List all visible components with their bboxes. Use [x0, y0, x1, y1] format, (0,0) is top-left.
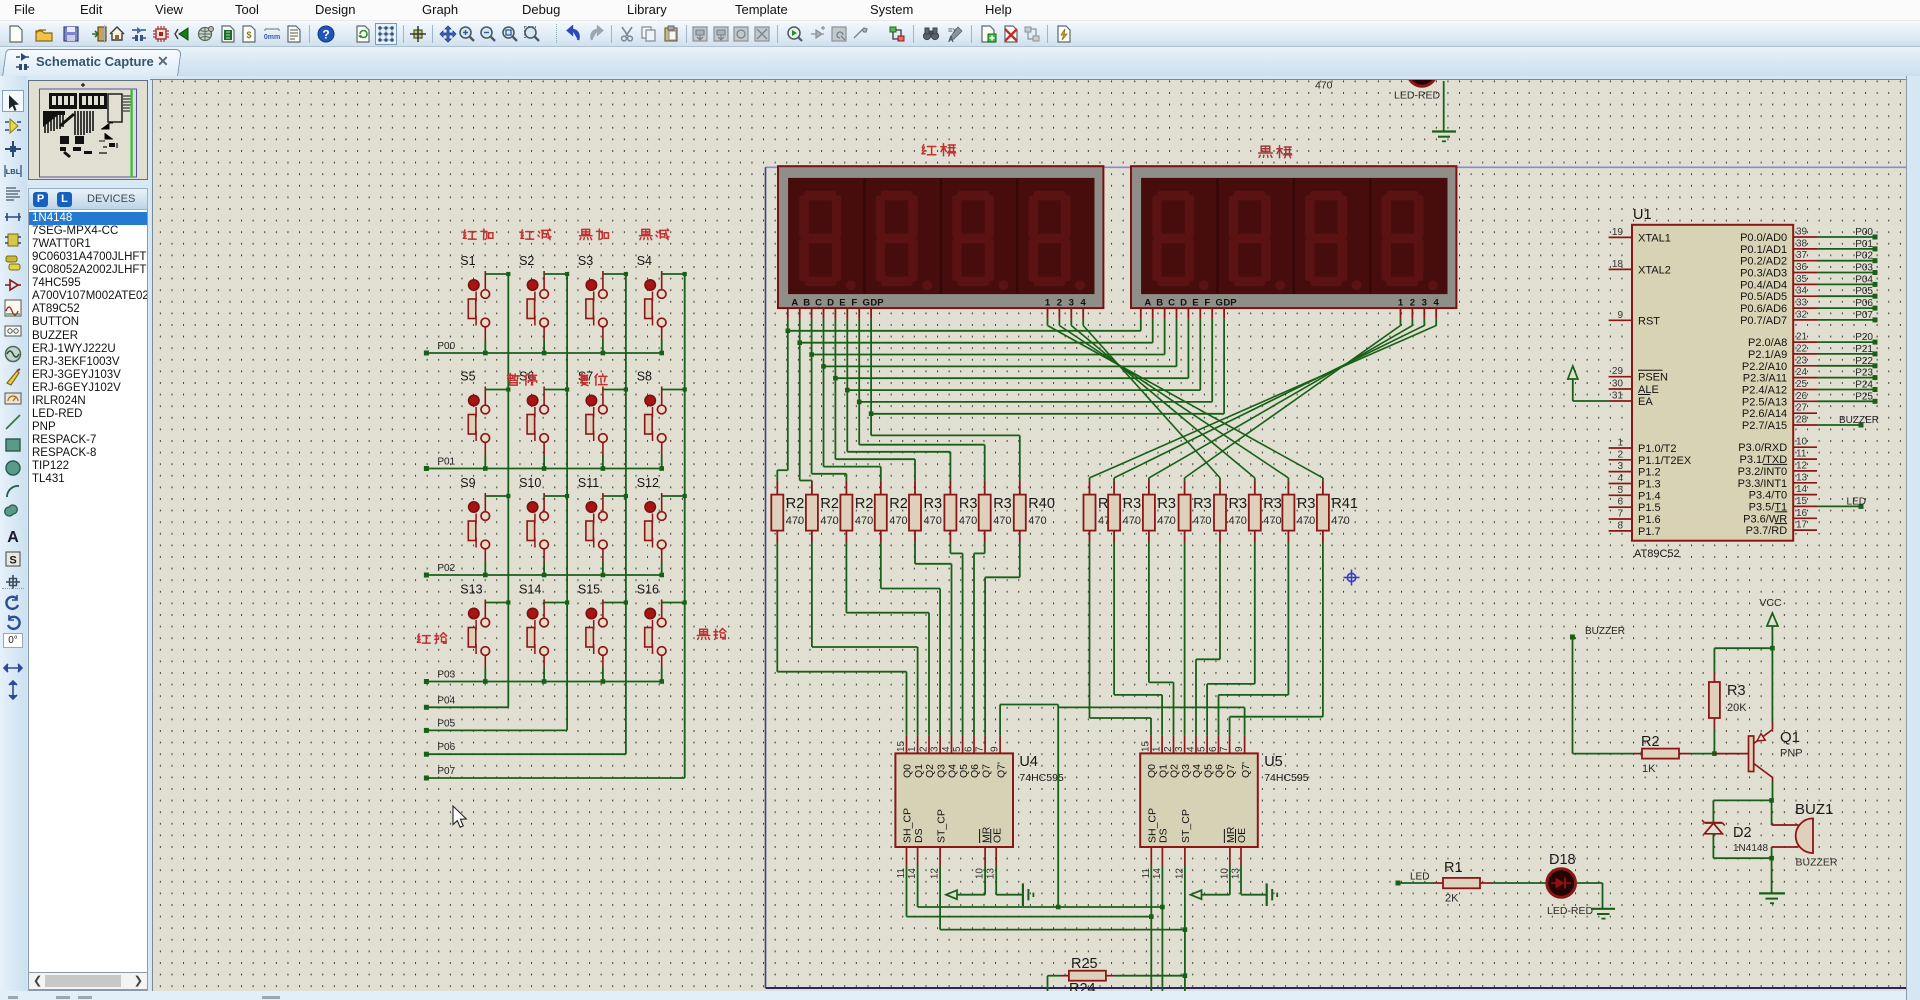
svg-text:DP: DP [870, 297, 884, 308]
wire net P20 [1817, 341, 1875, 343]
wire net LED [1817, 505, 1861, 507]
svg-text:0mm: 0mm [264, 34, 280, 41]
svg-text:1: 1 [1617, 438, 1623, 449]
junction buzzer bottom [1769, 856, 1774, 861]
LED D18 LED-RED [1547, 869, 1576, 898]
svg-text:38: 38 [1796, 238, 1808, 249]
svg-text:11: 11 [1141, 868, 1152, 879]
svg-text:4: 4 [1186, 746, 1197, 752]
resistor R32 (left bank 6) [984, 481, 986, 495]
svg-text:R2: R2 [1641, 734, 1660, 750]
junction S7 to row [601, 466, 606, 471]
svg-text:4: 4 [941, 746, 952, 752]
junction S2 to row [542, 351, 547, 356]
wire red-display segment 4 to resistor [834, 378, 836, 459]
wire net P23 [1817, 377, 1875, 379]
wire loop S1 to column [485, 273, 508, 275]
svg-text:P2.4/A12: P2.4/A12 [1742, 385, 1787, 397]
wire loop S15 to column [603, 602, 626, 604]
svg-text:13: 13 [986, 868, 997, 880]
svg-text:26: 26 [1796, 391, 1808, 402]
svg-text:D: D [827, 297, 834, 308]
wire loop S12 to column [662, 495, 685, 497]
digit separator [863, 178, 865, 294]
svg-text:AT89C52: AT89C52 [1634, 548, 1680, 560]
svg-text:D2: D2 [1733, 825, 1752, 841]
wire R25 left [1047, 976, 1049, 1000]
label 黑棋 (black chess) [1259, 146, 1273, 157]
svg-text:33: 33 [1796, 298, 1808, 309]
digit separator [1216, 178, 1218, 294]
junction chain-DS [1056, 905, 1061, 910]
menu bar [0, 0, 1920, 20]
U4 pin 15 Q0 [906, 735, 908, 753]
U1 pin 9 RST [1609, 319, 1632, 321]
svg-text:S8: S8 [637, 370, 652, 384]
active tab [2, 49, 182, 76]
svg-text:R3: R3 [1229, 496, 1248, 512]
wire row P03 [426, 681, 661, 683]
resistor R33 (right bank 1) [1113, 481, 1115, 495]
svg-text:1: 1 [907, 746, 918, 752]
7seg display 黑棋 (black) inner [1141, 178, 1447, 294]
resistor R31 (left bank 5) [949, 481, 951, 495]
svg-text:P04: P04 [1855, 274, 1873, 285]
svg-text:1K: 1K [1642, 763, 1656, 775]
U5 pin 7 Q7 [1229, 735, 1231, 753]
svg-text:470: 470 [1028, 515, 1046, 527]
resistor R33 (left bank 7) [1019, 481, 1021, 495]
junction S11 to row [601, 573, 606, 578]
U1 pin 2 P1.1/T2EX [1609, 459, 1632, 461]
svg-text:PNP: PNP [1780, 748, 1803, 760]
resistor R38 (right bank 6) [1287, 481, 1289, 495]
svg-text:24: 24 [1796, 367, 1808, 378]
U1 pin 33 P0.6/AD6 [1793, 307, 1817, 309]
svg-text:4: 4 [1617, 473, 1623, 484]
junction S10 to row [542, 573, 547, 578]
U5 pin 15 Q0 [1150, 735, 1152, 753]
svg-text:S2: S2 [519, 254, 534, 268]
resistor R3 20K [1713, 648, 1715, 672]
resistor R2 body [1642, 749, 1679, 759]
U1 pin 18 XTAL2 [1609, 268, 1632, 270]
svg-text:5: 5 [1197, 746, 1208, 752]
node BUZZER terminal [1570, 635, 1575, 640]
svg-text:P3.3/INT1: P3.3/INT1 [1738, 478, 1788, 490]
svg-text:1: 1 [1045, 297, 1051, 308]
U5 pin 1 Q1 [1161, 735, 1163, 753]
wire black display digit 2 diagonal [1411, 319, 1413, 326]
U4 pin 9 Q7' [999, 735, 1001, 753]
junction S13 to row [483, 679, 488, 684]
svg-text:DS: DS [1158, 828, 1170, 843]
wire segment bus 6 (red display pin to black display pin) [858, 319, 860, 402]
digit 1 segments [799, 191, 856, 291]
svg-text:3: 3 [1617, 461, 1623, 472]
wire net P03 [1817, 272, 1875, 274]
sheet border bottom [766, 987, 1908, 989]
svg-text:B: B [803, 297, 810, 308]
resistor R29 (left bank 3) [880, 481, 882, 495]
svg-text:470: 470 [993, 515, 1011, 527]
svg-text:2: 2 [1617, 449, 1623, 460]
svg-text:Q1: Q1 [1780, 729, 1800, 746]
resistor R32 (right bank 0) [1089, 481, 1091, 495]
U1 pin 31 EA [1609, 400, 1632, 402]
junction S14 to row [542, 679, 547, 684]
wire right bank resistor 5 to U5 Q5 [1254, 543, 1256, 684]
U1 pin 32 P0.7/AD7 [1793, 319, 1817, 321]
wire U5 SH_CP down [1150, 865, 1152, 1000]
U5 pin 11 SH_CP [1150, 847, 1152, 865]
ground U4 OE [995, 865, 997, 895]
svg-text:3: 3 [1422, 297, 1427, 308]
wire net BUZZER [1817, 424, 1861, 426]
junction S4 to row [659, 351, 664, 356]
svg-text:P1.1/T2EX: P1.1/T2EX [1638, 455, 1692, 467]
wire left bank resistor 0 to U4 Q0 [776, 543, 778, 672]
svg-text:A: A [1144, 297, 1151, 308]
svg-text:12: 12 [1796, 460, 1808, 471]
wire segment bus 4 (red display pin to black display pin) [834, 319, 836, 378]
node P03 [424, 679, 429, 684]
svg-text:10: 10 [1219, 868, 1230, 880]
U5 pin 2 Q2 [1173, 735, 1175, 753]
U5 pin 9 Q7' [1244, 735, 1246, 753]
wire loop S5 to column [485, 389, 508, 391]
7seg display 红棋 (red) inner [788, 178, 1094, 294]
svg-text:S5: S5 [460, 370, 475, 384]
U5 pin 14 DS [1161, 847, 1163, 865]
wire red-display segment 1 to resistor [799, 343, 801, 481]
svg-text:P23: P23 [1855, 368, 1873, 379]
svg-text:9: 9 [990, 746, 1001, 752]
svg-text:P3.4/T0: P3.4/T0 [1749, 490, 1788, 502]
buzzer BUZ1 [1771, 800, 1773, 825]
overview window [28, 80, 148, 180]
digit 3 segments [952, 191, 1009, 291]
svg-text:2: 2 [1163, 746, 1174, 752]
svg-text:11: 11 [896, 868, 907, 879]
digit 4 segments [1382, 191, 1439, 291]
svg-text:P2.7/A15: P2.7/A15 [1742, 420, 1787, 432]
svg-text:R2: R2 [820, 496, 839, 512]
svg-text:P1.0/T2: P1.0/T2 [1638, 443, 1677, 455]
U5 pin 3 Q3 [1184, 735, 1186, 753]
junction S16 to row [659, 679, 664, 684]
U1 pin 24 P2.3/A11 [1793, 377, 1817, 379]
wire right bank resistor 3 to U5 Q3 [1184, 543, 1186, 736]
svg-text:Q7': Q7' [1240, 762, 1252, 778]
wire left bank resistor 4 to U4 Q4 [914, 543, 916, 564]
horizontal scrollbar [28, 972, 148, 990]
svg-text:P22: P22 [1855, 356, 1873, 367]
svg-text:18: 18 [1612, 259, 1624, 270]
junction bus 6 [857, 400, 862, 405]
svg-text:Q3: Q3 [1180, 764, 1192, 778]
resistor R1 2K [1398, 882, 1433, 884]
junction R25 [1183, 973, 1188, 978]
svg-text:R3: R3 [1193, 496, 1212, 512]
svg-text:ST_CP: ST_CP [935, 809, 947, 843]
svg-text:2K: 2K [1445, 893, 1459, 905]
U1 pin 26 P2.5/A13 [1793, 400, 1817, 402]
junction base node [1712, 751, 1717, 756]
svg-text:S4: S4 [637, 254, 652, 268]
svg-text:LED: LED [1847, 496, 1866, 507]
resistor R34 (right bank 2) [1148, 481, 1150, 495]
svg-text:15: 15 [1141, 740, 1152, 752]
resistor R30 (left bank 4) [914, 481, 916, 495]
svg-text:P20: P20 [1855, 332, 1873, 343]
wire red display digit 4 diagonal [1082, 319, 1084, 326]
junction S8 to row [659, 466, 664, 471]
svg-text:BUZZER: BUZZER [1585, 626, 1625, 637]
U1 pin 19 XTAL1 [1609, 236, 1632, 238]
wire keypad column 2 [566, 274, 568, 730]
op-amp U1 AT89C52 microcontroller body [1632, 225, 1793, 541]
svg-text:S11: S11 [578, 476, 599, 490]
toolbar [0, 20, 1920, 47]
U1 pin 10 P3.0/RXD [1793, 446, 1817, 448]
svg-text:RST: RST [1638, 315, 1660, 327]
wire collector down [1772, 782, 1774, 800]
U1 pin 23 P2.2/A10 [1793, 365, 1817, 367]
svg-text:470: 470 [1263, 515, 1281, 527]
svg-text:ST_CP: ST_CP [1180, 809, 1192, 843]
svg-text:470: 470 [924, 515, 942, 527]
U1 pin 11 P3.1/TXD [1793, 458, 1817, 460]
svg-text:36: 36 [1796, 262, 1808, 273]
wire right bank resistor 1 to U5 Q1 [1113, 543, 1115, 695]
wire red-display segment 3 to resistor [823, 366, 825, 466]
resistor R37 (right bank 5) [1254, 481, 1256, 495]
wire net P07 [1817, 319, 1875, 321]
svg-text:LED-RED: LED-RED [1394, 90, 1441, 102]
svg-text:BUZ1: BUZ1 [1795, 801, 1833, 818]
svg-text:P2.2/A10: P2.2/A10 [1742, 361, 1787, 373]
wire segment bus 1 (red display pin to black display pin) [799, 319, 801, 343]
wire black display digit 3 diagonal [1423, 319, 1425, 326]
wire U4 SH_CP to U5 SH_CP [906, 865, 908, 917]
wire red-display segment 2 to resistor [811, 355, 813, 474]
svg-text:S10: S10 [519, 476, 541, 490]
svg-text:15: 15 [896, 740, 907, 752]
resistor R26 (left bank 0) [776, 481, 778, 495]
junction bus 4 [833, 376, 838, 381]
svg-text:74HC595: 74HC595 [1019, 772, 1064, 784]
node P07 [424, 776, 429, 781]
wire red-display segment 5 to resistor [846, 390, 848, 452]
digit 4 segments [1029, 191, 1086, 291]
resistor R28 (left bank 2) [845, 481, 847, 495]
svg-text:470: 470 [820, 515, 838, 527]
svg-text:R40: R40 [1028, 496, 1055, 512]
junction bus 5 [845, 388, 850, 393]
svg-text:21: 21 [1796, 332, 1808, 343]
svg-text:P1.3: P1.3 [1638, 479, 1661, 491]
svg-text:23: 23 [1796, 355, 1808, 366]
svg-text:12: 12 [930, 868, 941, 880]
digit separator [1016, 178, 1018, 294]
digit separator [1293, 178, 1295, 294]
U1 pin 36 P0.3/AD3 [1793, 272, 1817, 274]
wire row P00 [426, 352, 661, 354]
LED (cut off at top) [1408, 58, 1437, 87]
svg-text:470: 470 [1193, 515, 1211, 527]
U1 pin 12 P3.2/INT0 [1793, 470, 1817, 472]
wire loop S6 to column [544, 389, 567, 391]
node P02 [424, 573, 429, 578]
left panel [0, 76, 150, 1000]
U1 pin 3 P1.2 [1609, 471, 1632, 473]
wire net P22 [1817, 365, 1875, 367]
wire net P05 [1817, 295, 1875, 297]
U4 pin 10 MR [984, 847, 986, 865]
svg-text:4: 4 [1434, 297, 1440, 308]
node P06 [424, 752, 429, 757]
svg-text:D: D [1180, 297, 1187, 308]
svg-text:Q7': Q7' [995, 762, 1007, 778]
svg-text:6: 6 [1208, 746, 1219, 752]
svg-text:P06: P06 [1855, 298, 1873, 309]
junction S15 to row [601, 679, 606, 684]
U1 pin 8 P1.7 [1609, 530, 1632, 532]
svg-text:VCC: VCC [1759, 597, 1782, 609]
display 黑棋 (black) pins [1140, 308, 1142, 319]
resistor R39 (right bank 7) [1322, 481, 1324, 495]
svg-text:S1: S1 [460, 254, 475, 268]
tab bar [0, 47, 1920, 76]
svg-text:P1.6: P1.6 [1638, 514, 1661, 526]
svg-text:9: 9 [1234, 746, 1245, 752]
svg-text:P2.1/A9: P2.1/A9 [1748, 349, 1787, 361]
svg-text:R3: R3 [1263, 496, 1282, 512]
svg-text:P00: P00 [437, 341, 455, 352]
wire to LED [1492, 882, 1547, 884]
node P05 [424, 728, 429, 733]
svg-text:S13: S13 [460, 583, 482, 597]
resistor R35 (right bank 3) [1184, 481, 1186, 495]
wire loop S14 to column [544, 602, 567, 604]
right window edge strip [1906, 76, 1920, 1000]
U1 pin 6 P1.5 [1609, 506, 1632, 508]
svg-text:470: 470 [1229, 515, 1247, 527]
svg-text:E: E [839, 297, 845, 308]
svg-text:2: 2 [1410, 297, 1415, 308]
U4 pin 3 Q3 [939, 735, 941, 753]
wire row P06 [426, 753, 626, 755]
svg-text:15: 15 [1796, 496, 1808, 507]
svg-text:5: 5 [952, 746, 963, 752]
svg-text:S16: S16 [637, 583, 659, 597]
svg-text:P1.4: P1.4 [1638, 490, 1661, 502]
wire U5 DS down [1161, 865, 1163, 1000]
svg-text:10: 10 [975, 868, 986, 880]
svg-text:P02: P02 [1855, 251, 1873, 262]
resistor R27 (left bank 1) [811, 481, 813, 495]
wire net P06 [1817, 307, 1875, 309]
svg-text:39: 39 [1796, 227, 1808, 238]
ground LED [1591, 908, 1615, 910]
svg-text:Q5: Q5 [1202, 764, 1214, 778]
svg-text:P1.7: P1.7 [1638, 526, 1661, 538]
power arrow at EA [1568, 366, 1578, 379]
svg-text:Q5: Q5 [958, 764, 970, 778]
U1 pin 35 P0.4/AD4 [1793, 283, 1817, 285]
svg-text:34: 34 [1796, 286, 1808, 297]
crosshair marker [1344, 570, 1360, 586]
wire net P04 [1817, 283, 1875, 285]
svg-text:R3: R3 [1297, 496, 1316, 512]
U1 pin 28 P2.7/A15 [1793, 424, 1817, 426]
wire net P00 [1817, 236, 1875, 238]
junction bus 7 [869, 411, 874, 416]
devices header [28, 188, 148, 210]
power arrow U4 MR [984, 865, 986, 895]
U1 pin 14 P3.4/T0 [1793, 494, 1817, 496]
svg-text:19: 19 [1612, 227, 1624, 238]
svg-text:32: 32 [1796, 309, 1808, 320]
svg-text:U4: U4 [1019, 754, 1038, 770]
wire red-display segment 7 to resistor [870, 414, 872, 436]
svg-text:Q7: Q7 [980, 764, 992, 778]
U5 pin 12 ST_CP [1184, 847, 1186, 865]
U4 pin 11 SH_CP [906, 847, 908, 865]
svg-text:14: 14 [907, 868, 918, 880]
U4 pin 7 Q7 [984, 735, 986, 753]
svg-text:C: C [815, 297, 822, 308]
svg-text:11: 11 [1796, 449, 1807, 460]
svg-text:28: 28 [1796, 415, 1808, 426]
label 黑加 [580, 229, 593, 239]
svg-text:470: 470 [1315, 80, 1333, 92]
svg-text:B: B [1156, 297, 1163, 308]
svg-text:G: G [1216, 297, 1223, 308]
U1 pin 16 P3.6/WR [1793, 517, 1817, 519]
svg-text:R3: R3 [993, 496, 1012, 512]
svg-text:3: 3 [1174, 746, 1185, 752]
wire U5 Q7' chain [1244, 707, 1246, 735]
digit 2 segments [1229, 191, 1286, 291]
svg-text:7: 7 [975, 746, 986, 752]
wire row P02 [426, 574, 661, 576]
wire keypad column 4 [684, 274, 686, 778]
svg-text:A: A [791, 297, 798, 308]
U5 pin 4 Q4 [1195, 735, 1197, 753]
power arrow U5 MR [1229, 865, 1231, 895]
7seg display 黑棋 (black) frame [1131, 166, 1456, 308]
svg-text:P05: P05 [437, 718, 455, 729]
svg-text:2: 2 [1057, 297, 1062, 308]
wire U4 Q7' chain [999, 705, 1001, 736]
svg-text:LBL: LBL [6, 167, 21, 176]
U4 pin 14 DS [917, 847, 919, 865]
wire right bank resistor 2 to U5 Q2 [1148, 543, 1150, 683]
svg-text:XTAL1: XTAL1 [1638, 232, 1671, 244]
svg-text:P01: P01 [1855, 239, 1873, 250]
wire segment bus 2 (red display pin to black display pin) [811, 319, 813, 355]
svg-text:R2: R2 [786, 496, 805, 512]
svg-text:S12: S12 [637, 476, 659, 490]
svg-text:OE: OE [991, 828, 1003, 843]
U1 pin 34 P0.5/AD5 [1793, 295, 1817, 297]
wire keypad column 3 [625, 274, 627, 754]
wire loop S8 to column [662, 389, 685, 391]
svg-text:Q3: Q3 [935, 764, 947, 778]
svg-text:22: 22 [1796, 343, 1808, 354]
